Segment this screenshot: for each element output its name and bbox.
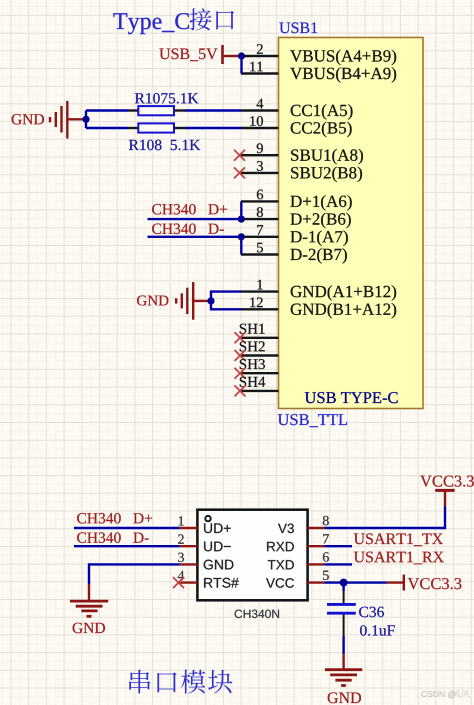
- net label CH340 D- (serial): [77, 532, 149, 543]
- pin SH3: [240, 359, 279, 373]
- pin 4 RTS#: [178, 571, 239, 588]
- ground GND (CC resistors): [12, 101, 86, 139]
- wire VCC3.3 to U pin8: [324, 506, 445, 528]
- no-connect X on SH4: [235, 385, 246, 396]
- pin 2 VBUS(A4+B9): [241, 44, 396, 65]
- net label CH340 D+ (upper): [152, 204, 227, 215]
- ground GND (pins 1,12): [137, 282, 211, 320]
- title Type_C接口: [113, 8, 234, 34]
- pin 6 TXD: [268, 552, 329, 569]
- pin 1 GND(A1+B12): [241, 280, 396, 301]
- pin 5 VCC: [266, 571, 329, 588]
- net label CH340 D- (upper): [152, 224, 224, 235]
- ground GND (serial left): [70, 584, 108, 633]
- junction at pin5/C36: [340, 579, 348, 587]
- power port VCC3.3 (top): [420, 476, 474, 507]
- resistor R107 5.1K: [128, 93, 199, 115]
- pin 6 D+1(A6): [241, 190, 352, 211]
- net label USB_TTL: [278, 414, 347, 427]
- pin 1 UD+: [179, 516, 231, 533]
- pin 11 VBUS(B4+A9): [241, 62, 396, 83]
- wire U pin7: [324, 545, 352, 547]
- wire GND junction vertical: [85, 111, 87, 129]
- pin 12 GND(B1+A12): [241, 298, 396, 319]
- wire pin2 to pin11: [240, 56, 242, 74]
- net label USART1_TX: [354, 533, 443, 546]
- junction at GND pins 1,12: [207, 297, 214, 304]
- pin SH2: [240, 341, 279, 355]
- pin 9 SBU1(A8): [241, 143, 363, 164]
- junction at pin 8: [238, 216, 245, 223]
- wire GND to R108: [86, 127, 128, 129]
- wire CH340 D- to pin 7: [148, 236, 242, 238]
- junction at GND/resistors: [82, 116, 89, 123]
- wire GND to pins 1,12: [211, 292, 241, 310]
- resistor R108 5.1K: [128, 123, 200, 150]
- IC CH340N body: [197, 510, 307, 601]
- wire U pin5 to VCC3.3: [324, 581, 386, 583]
- wire GND to R107: [86, 109, 128, 111]
- power port USB_5V: [159, 45, 241, 64]
- comment USB TYPE-C: [305, 392, 398, 403]
- wire CH340 D- to U pin2: [74, 545, 180, 547]
- pin 5 D-2(B7): [241, 243, 347, 264]
- comment CH340N: [235, 610, 279, 619]
- net label USART1_RX: [354, 552, 444, 565]
- no-connect X on SH3: [235, 368, 246, 379]
- power port VCC3.3 (right): [387, 575, 462, 591]
- capacitor C36 0.1uF: [327, 583, 395, 636]
- no-connect X on SH1: [235, 332, 246, 343]
- pin 7 D-1(A7): [241, 225, 348, 246]
- wire U pin6: [324, 563, 352, 565]
- no-connect X on RTS# pin: [173, 577, 184, 588]
- watermark: [421, 691, 455, 698]
- wire R108 to pin 10: [185, 127, 241, 129]
- pin 8 V3: [278, 516, 329, 533]
- wire pin7 to pin5: [240, 237, 242, 255]
- pin 10 CC2(B5): [241, 116, 352, 137]
- pin 3 GND: [178, 553, 233, 570]
- wire C36 to ground: [342, 636, 344, 654]
- pin 4 CC1(A5): [241, 99, 353, 120]
- net label CH340 D+ (serial): [77, 513, 152, 524]
- wire CH340 D+ to pin 8: [148, 218, 242, 220]
- connector USB1 designator: [279, 22, 317, 33]
- pin SH1: [240, 324, 279, 338]
- pin 8 D+2(B6): [241, 207, 351, 228]
- junction at pin 7: [238, 233, 245, 240]
- pin 3 SBU2(B8): [241, 161, 362, 182]
- no-connect X on SBU pin: [234, 167, 245, 178]
- no-connect X on SH2: [235, 350, 246, 361]
- pin 7 RXD: [267, 534, 329, 551]
- wire CH340 D+ to U pin1: [74, 527, 180, 529]
- wire R107 to pin 4: [185, 109, 241, 111]
- pin-1 marker dot: [205, 516, 210, 521]
- ground GND (below C36): [325, 654, 362, 703]
- wire U pin3 to ground: [89, 564, 180, 584]
- junction at pin 2: [238, 52, 245, 59]
- no-connect X on SBU pin: [234, 150, 245, 161]
- wire pin6 to pin8: [240, 201, 242, 219]
- pin 2 UD−: [178, 534, 231, 551]
- connector USB1 body: [279, 38, 424, 409]
- title 串口模块: [129, 670, 232, 694]
- pin SH4: [240, 377, 279, 391]
